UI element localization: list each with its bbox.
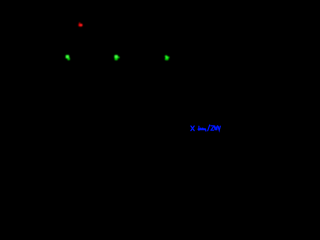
LED D1 (red, lit) xyxy=(78,22,82,26)
glyph slash xyxy=(208,125,210,131)
glyph 2 xyxy=(211,126,214,130)
LED D4 (green, lit) xyxy=(165,55,170,60)
watermark text (blue, bottom right) xyxy=(191,125,220,131)
glyph V xyxy=(218,126,220,130)
LED D3 (green, lit) xyxy=(114,55,119,60)
glyph W xyxy=(214,126,217,130)
glyph X xyxy=(191,126,194,131)
glyph word (Aug-like blob) xyxy=(199,126,206,131)
LED D2 (green, lit) xyxy=(66,55,71,60)
